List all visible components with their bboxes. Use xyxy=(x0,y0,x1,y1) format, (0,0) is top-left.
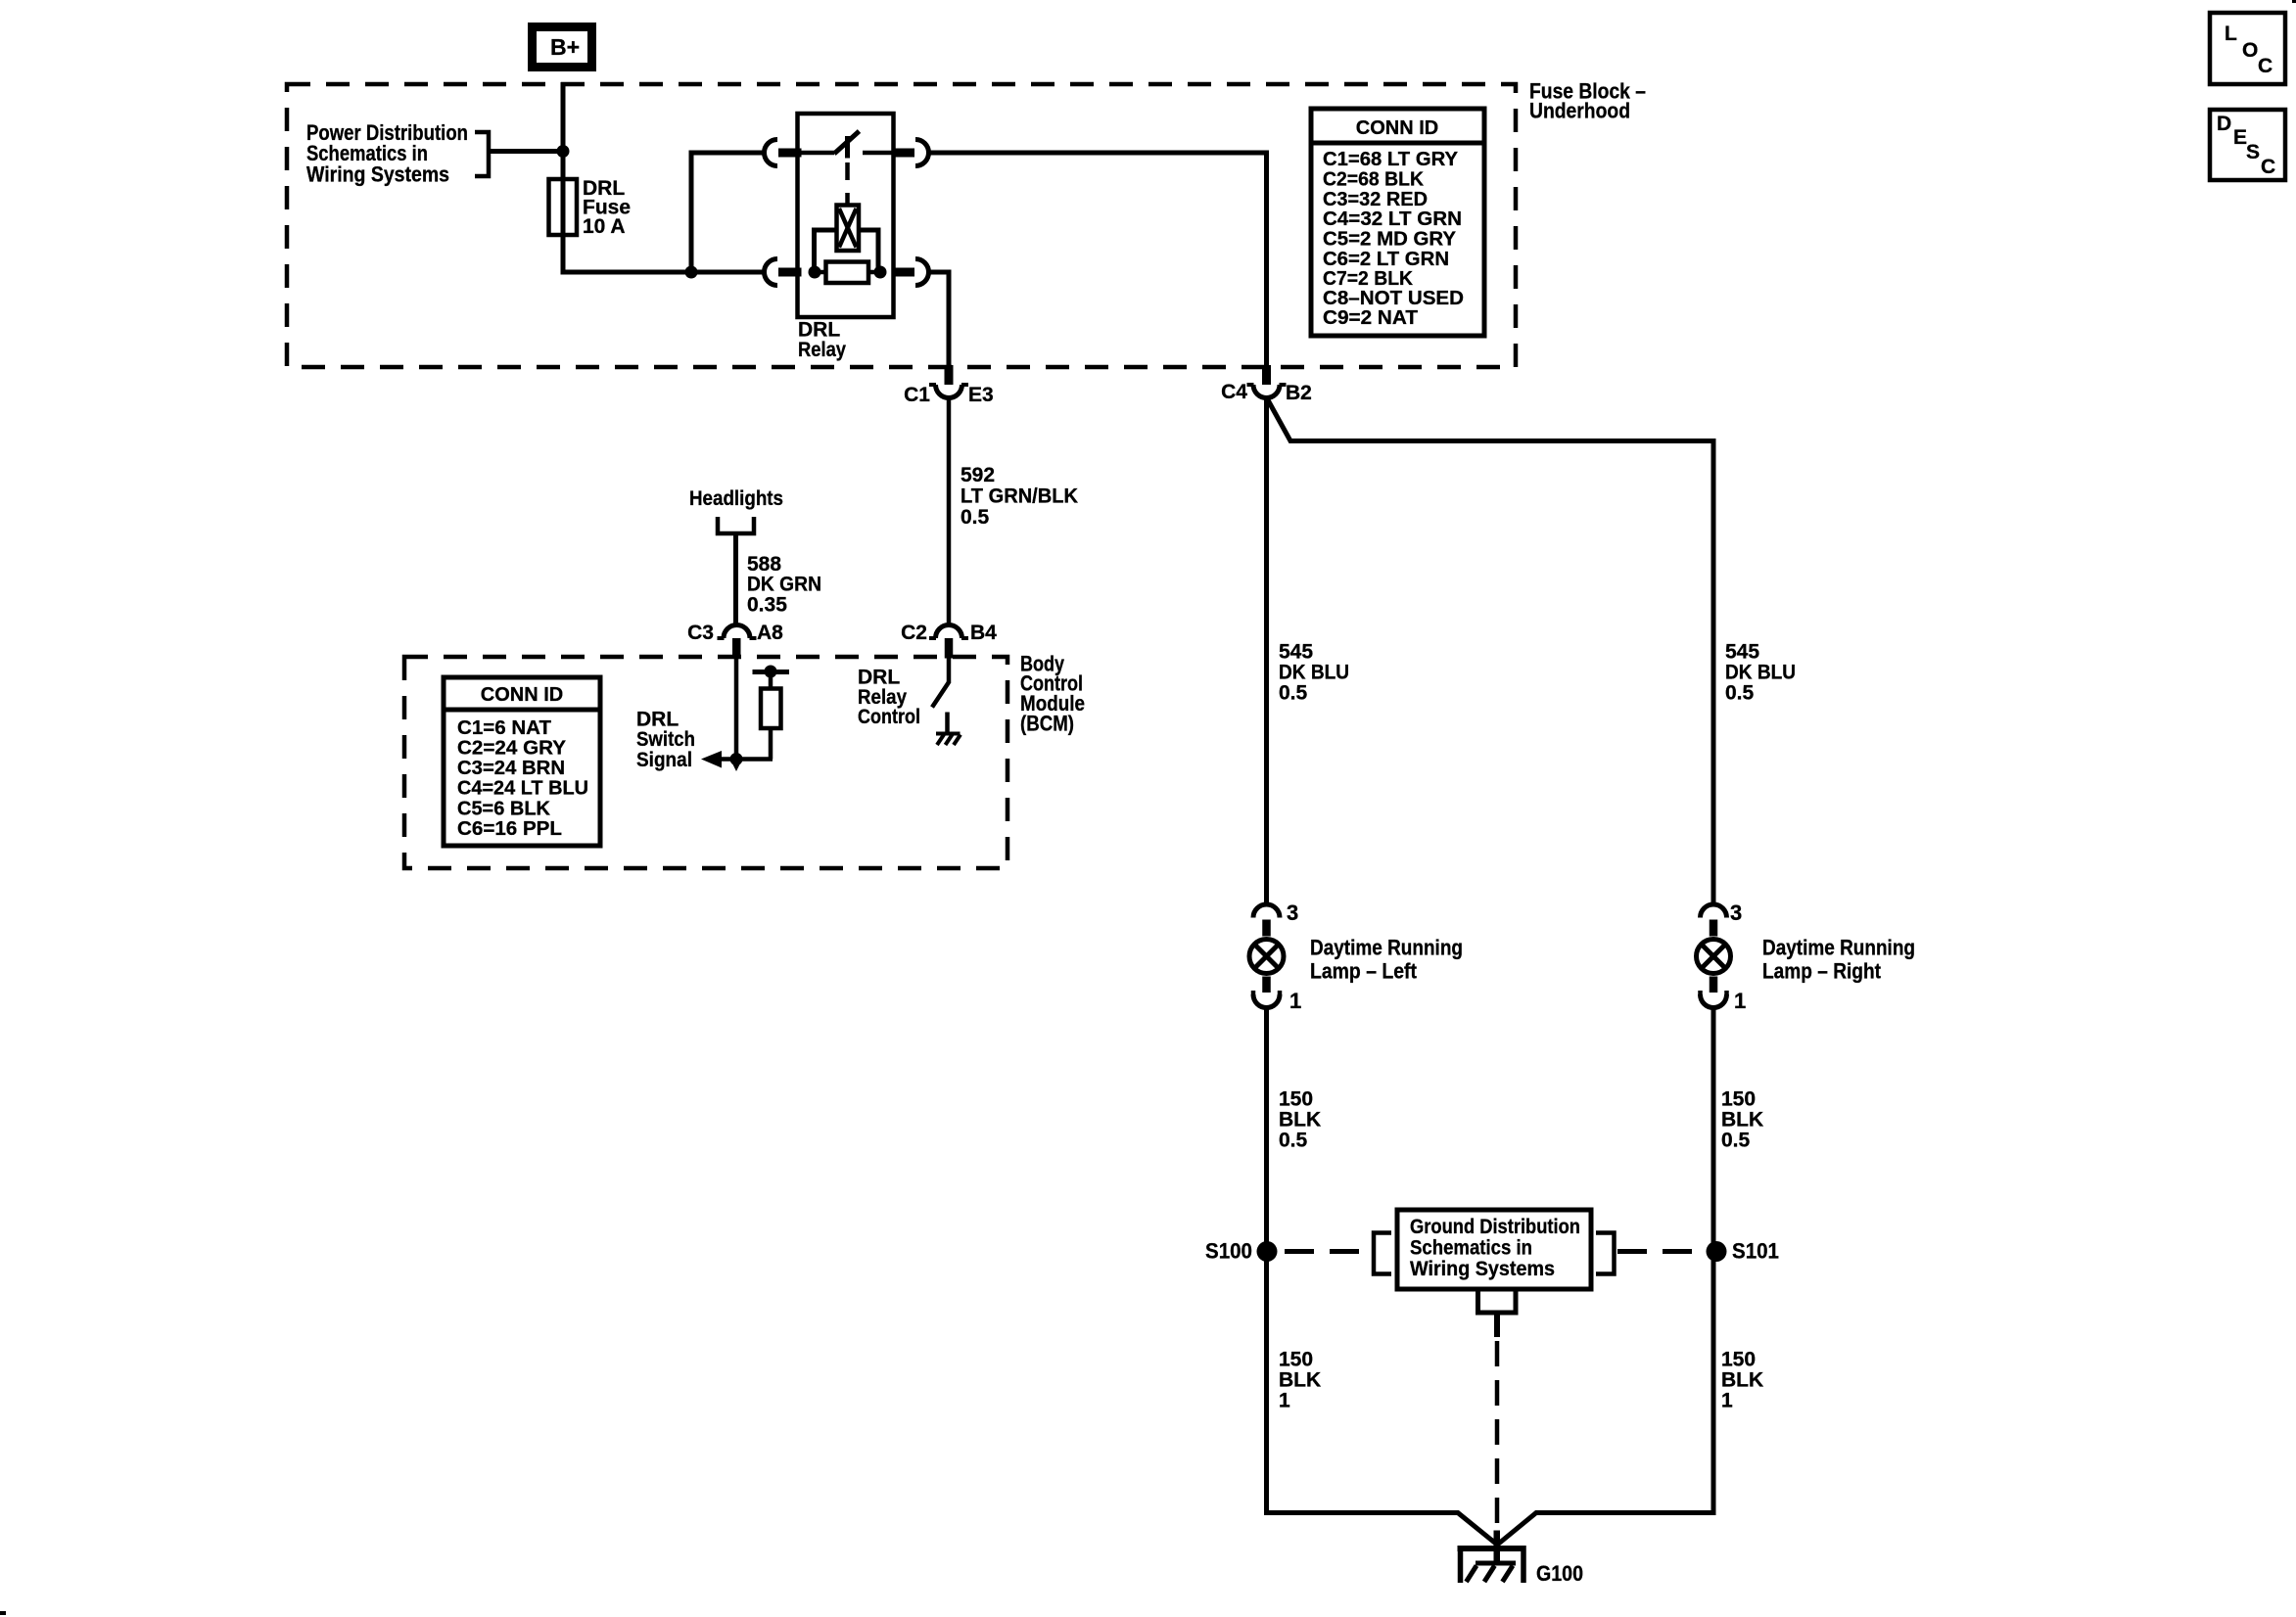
wire: circuit 592 C1 E3 to C2 B4 xyxy=(947,398,952,625)
left lamp connector pin 3 xyxy=(1253,901,1298,937)
connector arc right of relay switch pin xyxy=(915,140,929,166)
LOC reference box xyxy=(2210,13,2285,84)
svg-text:10 A: 10 A xyxy=(583,215,626,238)
right bracket of ground note xyxy=(1596,1233,1615,1274)
svg-text:BLK: BLK xyxy=(1279,1109,1321,1132)
DESC reference box xyxy=(2210,110,2285,180)
connector C1 E3 xyxy=(904,365,994,406)
svg-text:C8–NOT USED: C8–NOT USED xyxy=(1323,288,1464,309)
svg-text:0.5: 0.5 xyxy=(1725,682,1755,705)
svg-text:C3=24 BRN: C3=24 BRN xyxy=(457,758,565,779)
svg-text:545: 545 xyxy=(1279,641,1313,664)
ground G100 xyxy=(1458,1531,1526,1584)
svg-text:Control: Control xyxy=(858,706,920,728)
resistor inside relay xyxy=(815,262,880,284)
svg-text:C3: C3 xyxy=(687,622,714,644)
pull-up rail and resistor (BCM internal) xyxy=(753,666,790,760)
svg-text:B4: B4 xyxy=(970,622,997,644)
fuse block underhood dashed border xyxy=(287,84,1516,367)
note box: Ground Distribution Schematics in Wiring Systems xyxy=(1397,1210,1591,1289)
relay DRL Relay box xyxy=(798,114,894,317)
CONN ID table (BCM) xyxy=(444,677,600,846)
svg-text:BLK: BLK xyxy=(1721,1369,1763,1392)
svg-text:C5=2 MD GRY: C5=2 MD GRY xyxy=(1323,229,1457,251)
dashed wire: ground distribution note to S101 xyxy=(1617,1249,1705,1254)
CONN ID table (fuse block) xyxy=(1311,109,1484,336)
svg-text:C3=32 RED: C3=32 RED xyxy=(1323,189,1428,210)
connector arc right of relay coil pin xyxy=(915,259,929,286)
svg-text:C6=2 LT GRN: C6=2 LT GRN xyxy=(1323,249,1449,270)
bottom bracket under ground note xyxy=(1478,1290,1517,1337)
svg-text:C1=6 NAT: C1=6 NAT xyxy=(457,717,551,739)
svg-text:E: E xyxy=(2233,126,2247,149)
wire: circuit 545 to left lamp xyxy=(1264,398,1269,905)
svg-text:BLK: BLK xyxy=(1721,1109,1763,1132)
svg-text:3: 3 xyxy=(1730,901,1742,925)
left bracket of ground note xyxy=(1374,1233,1391,1274)
wire: right branch to G100 xyxy=(1498,1510,1713,1545)
dashed actuator link from switch to coil xyxy=(845,162,850,205)
svg-text:C2=68 BLK: C2=68 BLK xyxy=(1323,169,1425,191)
label: 150 BLK 0.5 (right) xyxy=(1721,1088,1763,1152)
svg-text:O: O xyxy=(2242,39,2258,62)
BCM internal: DRL switch signal network xyxy=(708,658,773,760)
junction node on B+ feed xyxy=(557,145,570,158)
label: 150 BLK 1 (right) xyxy=(1721,1349,1763,1412)
right lamp connector pin 1 xyxy=(1701,977,1747,1014)
svg-text:150: 150 xyxy=(1721,1088,1756,1111)
svg-text:Wiring Systems: Wiring Systems xyxy=(1410,1258,1555,1280)
svg-text:545: 545 xyxy=(1725,641,1759,664)
label: 545 DK BLU 0.5 (right) xyxy=(1725,641,1796,705)
svg-text:1: 1 xyxy=(1289,989,1301,1013)
svg-text:3: 3 xyxy=(1287,901,1298,925)
svg-text:Schematics in: Schematics in xyxy=(1410,1237,1532,1260)
headlights off-page connector xyxy=(718,517,754,533)
svg-text:E3: E3 xyxy=(968,384,994,406)
wire: circuit 545 branch to right lamp xyxy=(1267,398,1713,905)
connector C3 A8 xyxy=(687,622,783,659)
svg-text:C7=2 BLK: C7=2 BLK xyxy=(1323,268,1414,290)
label: 545 DK BLU 0.5 (left) xyxy=(1279,641,1349,705)
label: Headlights xyxy=(689,487,783,510)
dashed wire: S100 to ground distribution note xyxy=(1285,1249,1370,1254)
svg-text:DK BLU: DK BLU xyxy=(1725,662,1796,684)
svg-text:Switch: Switch xyxy=(636,728,695,751)
splice S101 xyxy=(1707,1239,1780,1264)
label: Fuse Block - Underhood xyxy=(1529,79,1646,123)
svg-text:S100: S100 xyxy=(1205,1239,1252,1264)
wire: relay switch output to C4 B2 drop xyxy=(929,153,1267,365)
label: Daytime Running Lamp - Right xyxy=(1762,936,1915,984)
svg-text:C2: C2 xyxy=(901,622,927,644)
wire: circuit 588 headlights to C3 A8 xyxy=(733,535,738,625)
svg-text:1: 1 xyxy=(1721,1390,1733,1412)
arrow: DRL switch signal xyxy=(701,751,722,768)
svg-text:Wiring Systems: Wiring Systems xyxy=(306,162,449,187)
svg-text:C1: C1 xyxy=(904,384,930,406)
label: 588 DK GRN 0.35 xyxy=(747,553,821,617)
svg-text:CONN ID: CONN ID xyxy=(1356,117,1438,139)
svg-text:S101: S101 xyxy=(1732,1239,1779,1264)
svg-text:150: 150 xyxy=(1279,1349,1313,1371)
fuse DRL Fuse 10 A xyxy=(549,179,578,235)
svg-text:0.5: 0.5 xyxy=(1721,1130,1751,1152)
connector arc left of relay switch pin xyxy=(765,140,778,166)
svg-text:1: 1 xyxy=(1734,989,1746,1013)
dashed wire: ground note to G100 xyxy=(1495,1341,1500,1531)
svg-text:Underhood: Underhood xyxy=(1529,99,1630,123)
wire: left branch to G100 xyxy=(1267,1510,1497,1545)
svg-text:150: 150 xyxy=(1279,1088,1313,1111)
junction node below relay feed branch xyxy=(685,266,698,279)
wire: circuit 150 right lamp to S101 xyxy=(1711,1008,1716,1513)
wire: fuse output rail to relay lower pin xyxy=(561,270,766,275)
svg-text:C4: C4 xyxy=(1221,381,1247,403)
splice S100 xyxy=(1205,1239,1278,1264)
wire: power note bracket to B+ feed xyxy=(489,149,563,154)
svg-text:BLK: BLK xyxy=(1279,1369,1321,1392)
lamp: Daytime Running Lamp - Left xyxy=(1249,940,1284,974)
relay switch contact xyxy=(801,131,892,159)
svg-text:D: D xyxy=(2217,113,2231,135)
wire: branch up to relay switch input xyxy=(689,153,766,272)
svg-text:Signal: Signal xyxy=(636,749,692,771)
svg-text:C6=16 PPL: C6=16 PPL xyxy=(457,818,562,840)
svg-text:B+: B+ xyxy=(550,34,580,60)
svg-text:CONN ID: CONN ID xyxy=(481,684,563,706)
svg-text:C4=32 LT GRN: C4=32 LT GRN xyxy=(1323,208,1462,230)
lamp: Daytime Running Lamp - Right xyxy=(1697,940,1731,974)
svg-text:0.5: 0.5 xyxy=(1279,682,1308,705)
label: 592 LT GRN/BLK 0.5 xyxy=(961,464,1078,529)
svg-text:592: 592 xyxy=(961,464,995,486)
ground (BCM internal) xyxy=(936,713,961,746)
right lamp connector pin 3 xyxy=(1701,901,1743,937)
svg-text:150: 150 xyxy=(1721,1349,1756,1371)
wire: relay coil output to C1 E3 drop xyxy=(929,272,950,365)
svg-text:A8: A8 xyxy=(757,622,783,644)
svg-text:C4=24 LT BLU: C4=24 LT BLU xyxy=(457,778,588,800)
svg-text:DK BLU: DK BLU xyxy=(1279,662,1349,684)
svg-text:Headlights: Headlights xyxy=(689,487,783,510)
svg-text:DK GRN: DK GRN xyxy=(747,574,821,596)
connector C4 B2 xyxy=(1221,365,1312,404)
note: Power Distribution Schematics in Wiring Systems xyxy=(306,120,468,187)
left lamp connector pin 1 xyxy=(1253,977,1301,1014)
svg-text:B2: B2 xyxy=(1286,382,1312,404)
svg-text:(BCM): (BCM) xyxy=(1020,712,1074,736)
svg-text:C9=2 NAT: C9=2 NAT xyxy=(1323,307,1418,329)
bracket for power distribution note xyxy=(475,132,489,176)
label: 150 BLK 0.5 (left) xyxy=(1279,1088,1321,1152)
BCM switch: DRL relay control driver xyxy=(932,658,949,708)
svg-text:Daytime Running: Daytime Running xyxy=(1762,936,1915,960)
svg-text:Lamp – Right: Lamp – Right xyxy=(1762,959,1882,984)
B+ battery terminal box xyxy=(533,27,592,68)
connector C2 B4 xyxy=(901,622,997,659)
svg-text:C: C xyxy=(2258,55,2273,77)
svg-text:0.35: 0.35 xyxy=(747,594,787,617)
label: Daytime Running Lamp - Left xyxy=(1310,936,1463,984)
wire: coil legs to lower pin xyxy=(815,230,879,272)
label: 150 BLK 1 (left) xyxy=(1279,1349,1321,1412)
svg-text:Daytime Running: Daytime Running xyxy=(1310,936,1463,960)
svg-text:C1=68 LT GRY: C1=68 LT GRY xyxy=(1323,149,1459,170)
relay pin stubs xyxy=(778,149,914,277)
svg-text:Relay: Relay xyxy=(798,339,846,361)
wire: circuit 150 left lamp to S100 xyxy=(1264,1008,1269,1513)
label: DRL Switch Signal xyxy=(636,709,695,772)
label: Body Control Module (BCM) xyxy=(1020,652,1085,736)
svg-text:L: L xyxy=(2225,23,2237,45)
svg-text:C5=6 BLK: C5=6 BLK xyxy=(457,799,551,820)
svg-text:C2=24 GRY: C2=24 GRY xyxy=(457,738,567,760)
BCM dashed border xyxy=(404,657,1007,868)
label: DRL Relay xyxy=(798,319,846,362)
label: G100 xyxy=(1536,1561,1583,1586)
wire: B+ down through fuse to lower rail xyxy=(561,82,566,272)
junction node on switch signal line xyxy=(730,753,743,771)
relay coil (box with X) xyxy=(837,206,860,252)
connector arc left of relay coil pin xyxy=(765,259,778,286)
svg-text:LT GRN/BLK: LT GRN/BLK xyxy=(961,485,1078,508)
svg-text:S: S xyxy=(2246,141,2260,163)
svg-text:G100: G100 xyxy=(1536,1561,1583,1586)
svg-text:Lamp – Left: Lamp – Left xyxy=(1310,959,1418,984)
label: DRL Fuse 10 A xyxy=(583,177,631,238)
junction nodes at relay coil pins xyxy=(809,266,887,279)
svg-text:0.5: 0.5 xyxy=(1279,1130,1308,1152)
svg-text:0.5: 0.5 xyxy=(961,506,990,529)
svg-text:Ground Distribution: Ground Distribution xyxy=(1410,1216,1580,1238)
svg-text:1: 1 xyxy=(1279,1390,1290,1412)
label: DRL Relay Control xyxy=(858,667,920,729)
svg-text:C: C xyxy=(2261,156,2275,178)
